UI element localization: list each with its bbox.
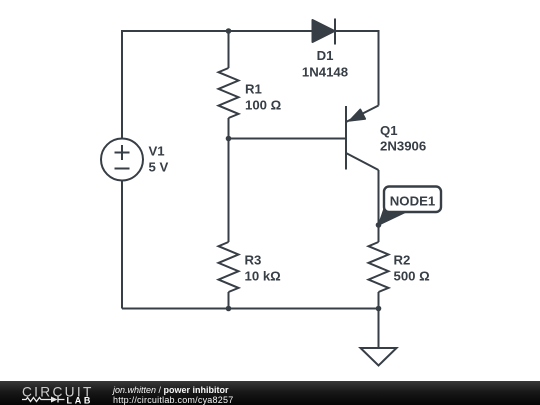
node NODE1 flag box [384,187,441,213]
voltage source V1 [101,139,143,181]
wire R3 top lead [228,139,230,243]
transistor Q1 [346,106,379,171]
svg-text:LAB: LAB [67,395,94,405]
svg-text:V1: V1 [149,144,165,159]
junction dot bottom rail / R3 [226,306,232,312]
svg-text:500 Ω: 500 Ω [394,269,431,284]
wire left rail V1 bottom down [121,181,123,309]
svg-text:100 Ω: 100 Ω [245,98,282,113]
wire R1 bottom lead [228,118,230,139]
wire ground lead [378,309,380,349]
svg-text:1N4148: 1N4148 [302,65,348,80]
wire bottom rail [122,308,379,310]
junction dot R1 / R3 / base [226,136,232,142]
wire R2 top lead [378,225,380,242]
CircuitLab logo diode triangle [51,397,58,403]
transistor Q1 emitter arrow [350,109,366,121]
svg-text:R3: R3 [245,253,262,268]
svg-text:Q1: Q1 [380,123,398,138]
svg-text:D1: D1 [317,48,334,63]
svg-text:5 V: 5 V [149,160,169,175]
resistor R2 [369,242,389,292]
wire D1 cathode to corner and down to Q1 emitter [335,31,379,106]
ground symbol [361,348,397,366]
footer bar [0,381,540,405]
svg-text:2N3906: 2N3906 [380,139,426,154]
CircuitLab logo resistor-diode squiggle [22,397,65,403]
diode D1 [313,19,336,45]
resistor R1 [219,68,239,118]
junction dot NODE1 [376,222,382,228]
wire R1 top lead [228,31,230,68]
junction dot top rail / R1 [226,28,232,34]
svg-text:NODE1: NODE1 [390,194,435,209]
wire R2 bottom lead [378,292,380,309]
resistor R3 [219,242,239,292]
node NODE1 flag tail [379,204,409,226]
svg-text:R2: R2 [394,253,411,268]
svg-text:R1: R1 [245,82,262,97]
wire base node to Q1 [229,138,347,140]
footer credit text [113,385,233,405]
junction dot bottom rail / R2 / ground [376,306,382,312]
svg-text:10 kΩ: 10 kΩ [245,269,282,284]
wire top rail from V1 to D1 anode [122,31,313,139]
wire Q1 collector down to NODE1 junction [378,170,380,225]
wire R3 bottom lead [228,292,230,309]
